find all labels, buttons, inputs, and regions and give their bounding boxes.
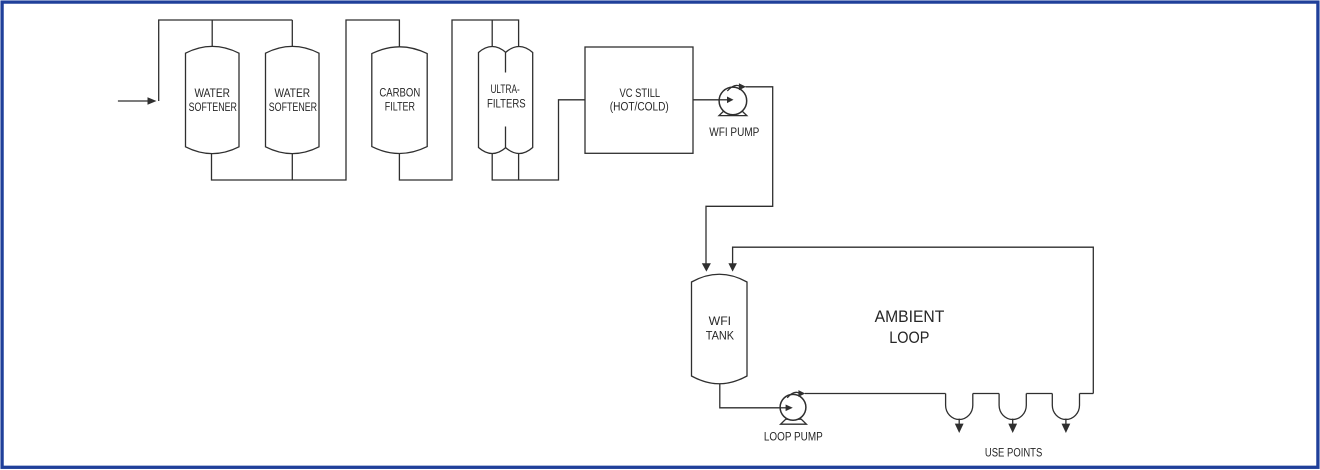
svg-text:WATER: WATER: [194, 88, 230, 100]
svg-text:LOOP PUMP: LOOP PUMP: [764, 432, 823, 444]
pipe: carbon filter bottom to riser to ultra header: [399, 20, 518, 180]
inlet feed pipe: [118, 100, 148, 102]
svg-text:LOOP: LOOP: [889, 329, 929, 347]
svg-text:FILTERS: FILTERS: [487, 99, 526, 111]
pipe: ambient loop return into WFI tank: [733, 247, 1094, 393]
use point 2: [999, 394, 1026, 420]
svg-text:TANK: TANK: [706, 331, 735, 343]
vessel: CARBON FILTER: [372, 47, 427, 154]
svg-text:(HOT/COLD): (HOT/COLD): [610, 102, 669, 114]
svg-text:WFI PUMP: WFI PUMP: [709, 127, 759, 139]
pipe: ultra bottoms riser to VC still inlet: [492, 100, 585, 180]
unit: VC STILL: [585, 47, 693, 153]
vessel: WATER SOFTENER 2: [266, 46, 320, 153]
vessel: ULTRA FILTER 2: [506, 47, 533, 154]
pipe: softener bottoms to riser: [212, 20, 400, 180]
pipe between use points 2-3: [1026, 393, 1052, 395]
arrowhead into WFI tank left: [702, 263, 711, 271]
arrowhead into loop pump: [786, 405, 793, 412]
pump: WFI PUMP: [719, 83, 747, 115]
pipe: loop bottom line pump to use point 1: [805, 393, 946, 395]
svg-text:AMBIENT: AMBIENT: [875, 308, 945, 326]
svg-text:ULTRA-: ULTRA-: [490, 84, 519, 96]
arrowhead into WFI pump: [727, 97, 734, 104]
pump: LOOP PUMP: [780, 390, 806, 424]
svg-text:WATER: WATER: [275, 88, 311, 100]
pipe: use point 3 to loop right riser: [1080, 393, 1094, 395]
use point 3: [1052, 394, 1079, 420]
svg-text:USE POINTS: USE POINTS: [985, 448, 1043, 460]
vessel: WATER SOFTENER 1: [186, 46, 240, 153]
pipe between use points 1-2: [973, 393, 999, 395]
pipe: stub into ultra filter 1: [491, 20, 493, 47]
pipe: WFI pump discharge down to WFI tank: [706, 87, 773, 264]
label plate over seam: [483, 73, 529, 127]
pipe: VC still outlet to WFI pump: [693, 99, 728, 101]
vessel: WFI TANK: [692, 274, 748, 384]
pipe: WFI tank outlet to loop pump: [720, 381, 786, 408]
svg-text:FILTER: FILTER: [385, 102, 415, 114]
pipe: stub into water softener 1: [211, 20, 213, 47]
use point 1: [946, 394, 973, 420]
pipe: ultra filter 2 bottom stub: [518, 154, 520, 181]
svg-text:WFI: WFI: [709, 316, 731, 328]
svg-text:CARBON: CARBON: [379, 88, 420, 100]
pipe: stub into water softener 2: [291, 20, 293, 47]
svg-text:VC STILL: VC STILL: [619, 88, 660, 100]
arrowhead into WFI tank right: [728, 263, 737, 271]
svg-text:SOFTENER: SOFTENER: [189, 102, 237, 114]
pipe: softener 2 bottom stub: [291, 154, 293, 180]
vessel: ULTRA FILTER 1: [479, 47, 506, 154]
inlet arrowhead: [148, 97, 157, 104]
svg-text:SOFTENER: SOFTENER: [269, 102, 317, 114]
pipe: riser to top header 1: [159, 20, 293, 101]
